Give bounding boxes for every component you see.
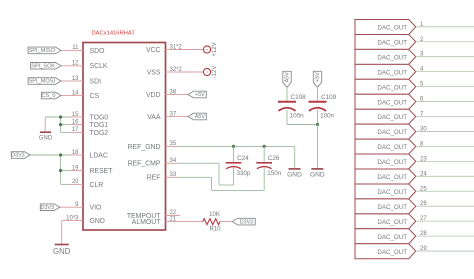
svg-text:REF_CMP: REF_CMP	[128, 161, 161, 168]
svg-text:CLR: CLR	[90, 182, 104, 189]
svg-text:R10: R10	[209, 227, 221, 233]
svg-text:DAC_OUT: DAC_OUT	[377, 174, 407, 181]
svg-text:TOG2: TOG2	[90, 130, 109, 137]
svg-text:D3V3: D3V3	[41, 205, 55, 211]
svg-text:C108: C108	[291, 94, 307, 101]
svg-text:D3V3: D3V3	[240, 219, 254, 225]
svg-text:330p: 330p	[237, 170, 252, 177]
svg-text:SPI_SCK: SPI_SCK	[31, 64, 55, 70]
svg-text:DAC_OUT: DAC_OUT	[377, 39, 407, 46]
svg-text:DAC_OUT: DAC_OUT	[377, 249, 407, 256]
svg-text:DAC_OUT: DAC_OUT	[377, 69, 407, 76]
svg-text:DAC_OUT: DAC_OUT	[377, 114, 407, 121]
svg-text:VSS: VSS	[147, 69, 161, 76]
svg-text:SCLK: SCLK	[90, 63, 108, 70]
svg-text:+12V: +12V	[212, 42, 218, 56]
svg-text:SPI_MISO: SPI_MISO	[29, 48, 56, 54]
svg-text:GND: GND	[39, 135, 53, 141]
svg-text:DAC_OUT: DAC_OUT	[377, 54, 407, 61]
svg-text:150n: 150n	[267, 170, 282, 177]
svg-text:CS: CS	[90, 93, 100, 100]
svg-text:+5V: +5V	[315, 72, 321, 82]
svg-text:DAC_OUT: DAC_OUT	[377, 234, 407, 241]
svg-text:C24: C24	[237, 155, 249, 162]
svg-text:+5V: +5V	[195, 92, 205, 98]
svg-text:SPI_MOSI: SPI_MOSI	[29, 79, 56, 85]
svg-text:100n: 100n	[290, 113, 305, 120]
svg-text:C109: C109	[321, 94, 337, 101]
svg-text:VDD: VDD	[146, 92, 161, 99]
svg-text:LDAC: LDAC	[90, 152, 108, 159]
svg-text:GND: GND	[310, 171, 325, 178]
svg-text:DAC_OUT: DAC_OUT	[377, 204, 407, 211]
svg-text:DAC_OUT: DAC_OUT	[377, 219, 407, 226]
svg-text:DAC_OUT: DAC_OUT	[377, 84, 407, 91]
svg-text:REF: REF	[147, 175, 161, 182]
svg-text:SDO: SDO	[90, 48, 106, 55]
svg-text:-12V: -12V	[212, 66, 218, 79]
svg-text:DAC_OUT: DAC_OUT	[377, 129, 407, 136]
svg-text:A5V: A5V	[284, 72, 290, 83]
svg-text:A5V: A5V	[195, 114, 206, 120]
svg-text:ALMOUT: ALMOUT	[132, 219, 162, 226]
svg-text:GND: GND	[287, 171, 302, 178]
svg-text:DAC_OUT: DAC_OUT	[377, 189, 407, 196]
svg-text:TOG1: TOG1	[90, 122, 109, 129]
svg-text:GND: GND	[90, 218, 105, 225]
svg-text:DAC_OUT: DAC_OUT	[377, 159, 407, 166]
svg-text:SDI: SDI	[90, 78, 102, 85]
svg-text:C26: C26	[268, 155, 280, 162]
svg-text:DAC_OUT: DAC_OUT	[377, 99, 407, 106]
svg-text:CS_0: CS_0	[41, 93, 55, 99]
svg-text:VAA: VAA	[147, 114, 161, 121]
svg-text:100n: 100n	[320, 113, 335, 120]
svg-text:DAC_OUT: DAC_OUT	[377, 144, 407, 151]
svg-text:REF_GND: REF_GND	[128, 144, 161, 151]
svg-text:VCC: VCC	[146, 47, 161, 54]
svg-text:DAC_OUT: DAC_OUT	[377, 25, 407, 32]
svg-text:10K: 10K	[209, 212, 220, 218]
svg-text:VIO: VIO	[90, 205, 103, 212]
svg-text:GND: GND	[53, 247, 71, 256]
svg-text:RESET: RESET	[90, 168, 114, 175]
svg-text:TOG0: TOG0	[90, 114, 109, 121]
svg-text:DACx1416RHAT: DACx1416RHAT	[92, 31, 136, 37]
svg-text:D3V3: D3V3	[11, 153, 25, 159]
